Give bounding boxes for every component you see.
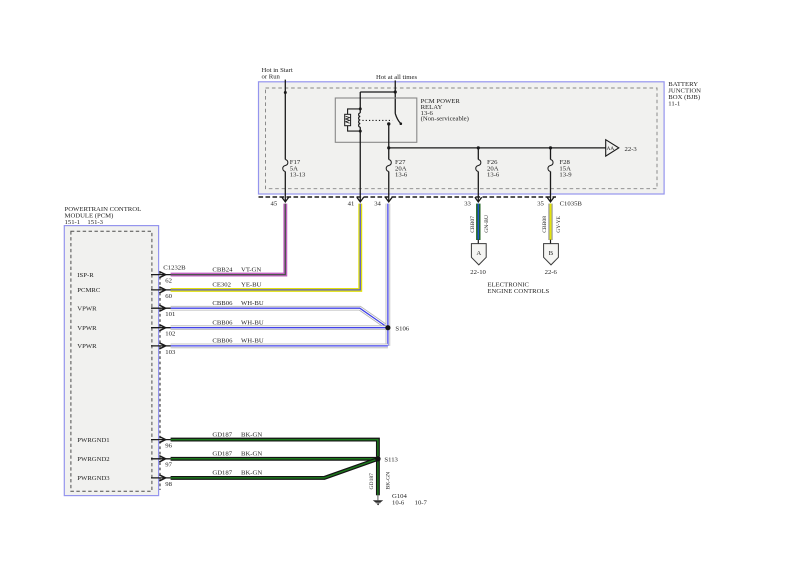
relay switch blade — [395, 114, 400, 124]
dotted armature link — [362, 119, 392, 121]
svg-text:41: 41 — [348, 200, 355, 207]
pin 98 stub and arrow — [151, 477, 171, 479]
svg-text:PWRGND2: PWRGND2 — [77, 456, 109, 463]
svg-text:35: 35 — [537, 200, 544, 207]
pin 97 stub and arrow — [151, 458, 171, 460]
wire CBB08 GY-YE (pin 35 drop) — [548, 204, 552, 240]
svg-text:102: 102 — [165, 331, 175, 338]
wire: stub to connector B — [550, 240, 552, 244]
wire CE302 YE-BU (pin 41 to PCMRC) — [171, 204, 361, 290]
connector C1035B dashed line — [259, 196, 557, 198]
svg-text:PWRGND3: PWRGND3 — [77, 475, 110, 482]
wire: coil line lower to pin 41 — [359, 127, 361, 201]
svg-text:WH-BU: WH-BU — [241, 338, 264, 345]
svg-text:BK-GN: BK-GN — [241, 451, 262, 458]
connector arrow at pin 45 — [282, 197, 289, 202]
powertrain control module (PCM) outline — [64, 226, 158, 496]
fuse F17 — [283, 160, 288, 172]
wire: F28 branch upper — [550, 148, 552, 160]
svg-text:C1232B: C1232B — [163, 265, 186, 272]
svg-text:S106: S106 — [395, 325, 409, 332]
svg-text:96: 96 — [165, 443, 172, 450]
svg-text:VPWR: VPWR — [77, 306, 97, 313]
wire CBB24 VT-GN (pin 45 to ISP-R) — [171, 204, 286, 275]
wire: resistor top link — [348, 109, 361, 114]
svg-text:CBB08: CBB08 — [542, 216, 548, 233]
svg-text:CE302: CE302 — [212, 282, 231, 289]
wire GD187 BK-GN (S113 to ground G104) — [376, 459, 380, 496]
svg-text:VPWR: VPWR — [77, 325, 97, 332]
svg-text:Hot at all times: Hot at all times — [376, 74, 417, 81]
pin 60 stub and arrow — [151, 289, 171, 291]
connector arrow at pin 35 — [547, 197, 554, 202]
pin 102 stub and arrow — [151, 327, 171, 329]
svg-text:33: 33 — [464, 200, 471, 207]
svg-text:BATTERYJUNCTIONBOX (BJB)11-1: BATTERYJUNCTIONBOX (BJB)11-1 — [668, 81, 701, 108]
off-page arrow AA — [606, 140, 619, 156]
fuse F27 — [386, 160, 391, 172]
svg-text:CBB06: CBB06 — [212, 300, 233, 307]
svg-text:GD187: GD187 — [212, 451, 232, 458]
svg-text:22-3: 22-3 — [625, 146, 638, 153]
wire CBB07 GN-BU (pin 33 drop) — [476, 204, 480, 240]
junction dot bus at F26 — [477, 146, 480, 149]
wire CBB06 WH-BU (VPWR 101) — [171, 308, 388, 328]
wire GD187 BK-GN (PWRGND3) — [171, 459, 378, 478]
pin 101 stub and arrow — [151, 307, 171, 309]
svg-text:GD187: GD187 — [212, 431, 232, 438]
pin 103 stub and arrow — [151, 345, 171, 347]
fuse F28 — [548, 160, 553, 172]
junction dot on hot-in-start wire — [284, 91, 287, 94]
junction dot bus at F28 — [549, 146, 552, 149]
resistor body (relay suppression resistor) — [345, 114, 351, 125]
svg-text:GD187: GD187 — [212, 470, 232, 477]
wire: hot in start feed to fuse F17 — [284, 80, 286, 160]
svg-text:A: A — [476, 250, 481, 257]
svg-text:101: 101 — [165, 311, 175, 318]
svg-text:CBB06: CBB06 — [212, 319, 233, 326]
wire GD187 BK-GN (PWRGND2) — [171, 457, 378, 461]
svg-text:VT-GN: VT-GN — [241, 266, 261, 273]
wire: hot at all times feed to relay switch — [394, 80, 396, 113]
svg-text:WH-BU: WH-BU — [241, 300, 264, 307]
connector B (to 22-6) — [544, 244, 559, 265]
svg-text:45: 45 — [271, 200, 278, 207]
svg-text:GN-BU: GN-BU — [484, 215, 490, 233]
svg-text:ISP-R: ISP-R — [77, 272, 94, 279]
svg-text:GY-YE: GY-YE — [556, 215, 562, 232]
svg-text:B: B — [549, 250, 554, 257]
svg-text:22-10: 22-10 — [470, 269, 486, 276]
connector C1232B dashed line — [159, 272, 161, 491]
svg-text:BK-GN: BK-GN — [241, 431, 262, 438]
svg-text:Hot in Startor Run: Hot in Startor Run — [262, 67, 293, 80]
svg-text:BK-GN: BK-GN — [241, 470, 262, 477]
svg-text:PCMRC: PCMRC — [77, 287, 101, 294]
relay coil L1 — [359, 113, 361, 127]
wire: F27 to pin 34 — [388, 172, 390, 202]
svg-text:CBB06: CBB06 — [212, 338, 233, 345]
junction dot bus at F27 line — [387, 146, 390, 149]
svg-text:62: 62 — [165, 278, 172, 285]
wire: stub to connector A — [477, 240, 479, 244]
connector A (to 22-10) — [471, 244, 486, 265]
wire WH-BU vertical from pin 34 through S106 — [386, 204, 391, 346]
PCM inner dashed border — [71, 231, 152, 491]
wire CBB06 WH-BU (VPWR 103) — [171, 344, 388, 349]
pin 96 stub and arrow — [151, 439, 171, 441]
svg-text:34: 34 — [374, 200, 381, 207]
relay switch contact dot — [387, 122, 390, 125]
wire: F26 to pin 33 — [477, 172, 479, 202]
svg-text:22-6: 22-6 — [545, 269, 558, 276]
svg-text:BK-GN: BK-GN — [385, 472, 391, 490]
splice S106 — [385, 325, 390, 330]
wire: F28 to pin 35 — [550, 172, 552, 202]
relay box U1 outline — [335, 98, 417, 142]
wire GD187 BK-GN (PWRGND1) — [171, 440, 378, 457]
connector arrow at pin 33 — [475, 197, 482, 202]
splice S113 — [375, 456, 380, 461]
wire: coil line upper — [359, 92, 361, 113]
svg-text:60: 60 — [165, 293, 172, 300]
svg-text:VPWR: VPWR — [77, 343, 97, 350]
junction dot at hot line / coil jumper — [394, 90, 397, 93]
svg-text:GD187: GD187 — [369, 473, 375, 490]
connector arrow at pin 34 — [385, 197, 392, 202]
svg-text:G10410-610-7: G10410-610-7 — [392, 493, 428, 506]
battery junction box (BJB) outline — [259, 82, 665, 194]
wire: F17 to pin 45 — [284, 172, 286, 202]
BJB inner dashed border — [266, 88, 658, 189]
junction dot coil/resistor bottom — [359, 130, 362, 133]
svg-text:WH-BU: WH-BU — [241, 319, 264, 326]
svg-text:AA: AA — [607, 146, 615, 152]
svg-text:POWERTRAIN CONTROLMODULE (PCM): POWERTRAIN CONTROLMODULE (PCM)151-1151-3 — [65, 206, 142, 226]
svg-text:S113: S113 — [384, 456, 398, 463]
svg-text:ELECTRONICENGINE CONTROLS: ELECTRONICENGINE CONTROLS — [487, 281, 549, 295]
svg-text:YE-BU: YE-BU — [241, 282, 262, 289]
connector arrow at pin 41 — [357, 197, 364, 202]
wire CBB06 WH-BU (VPWR 102) — [171, 325, 388, 330]
svg-text:CBB24: CBB24 — [212, 266, 233, 273]
wire: relay switch output down — [388, 124, 390, 160]
svg-text:98: 98 — [165, 481, 172, 488]
svg-text:PWRGND1: PWRGND1 — [77, 437, 109, 444]
wire: relay coil feed (top jumper) — [360, 91, 395, 93]
svg-text:CBB07: CBB07 — [470, 216, 476, 233]
svg-text:C1035B: C1035B — [560, 200, 583, 207]
fuse F26 — [476, 160, 481, 172]
junction dot coil/resistor top — [359, 107, 362, 110]
wire: F26 branch upper — [477, 148, 479, 160]
svg-text:97: 97 — [165, 462, 172, 469]
wire: fuse bus — [389, 147, 606, 149]
ground G104 symbol — [377, 495, 379, 501]
pin 62 stub and arrow — [151, 274, 171, 276]
svg-text:103: 103 — [165, 349, 176, 356]
wire: resistor bottom link — [348, 126, 361, 131]
